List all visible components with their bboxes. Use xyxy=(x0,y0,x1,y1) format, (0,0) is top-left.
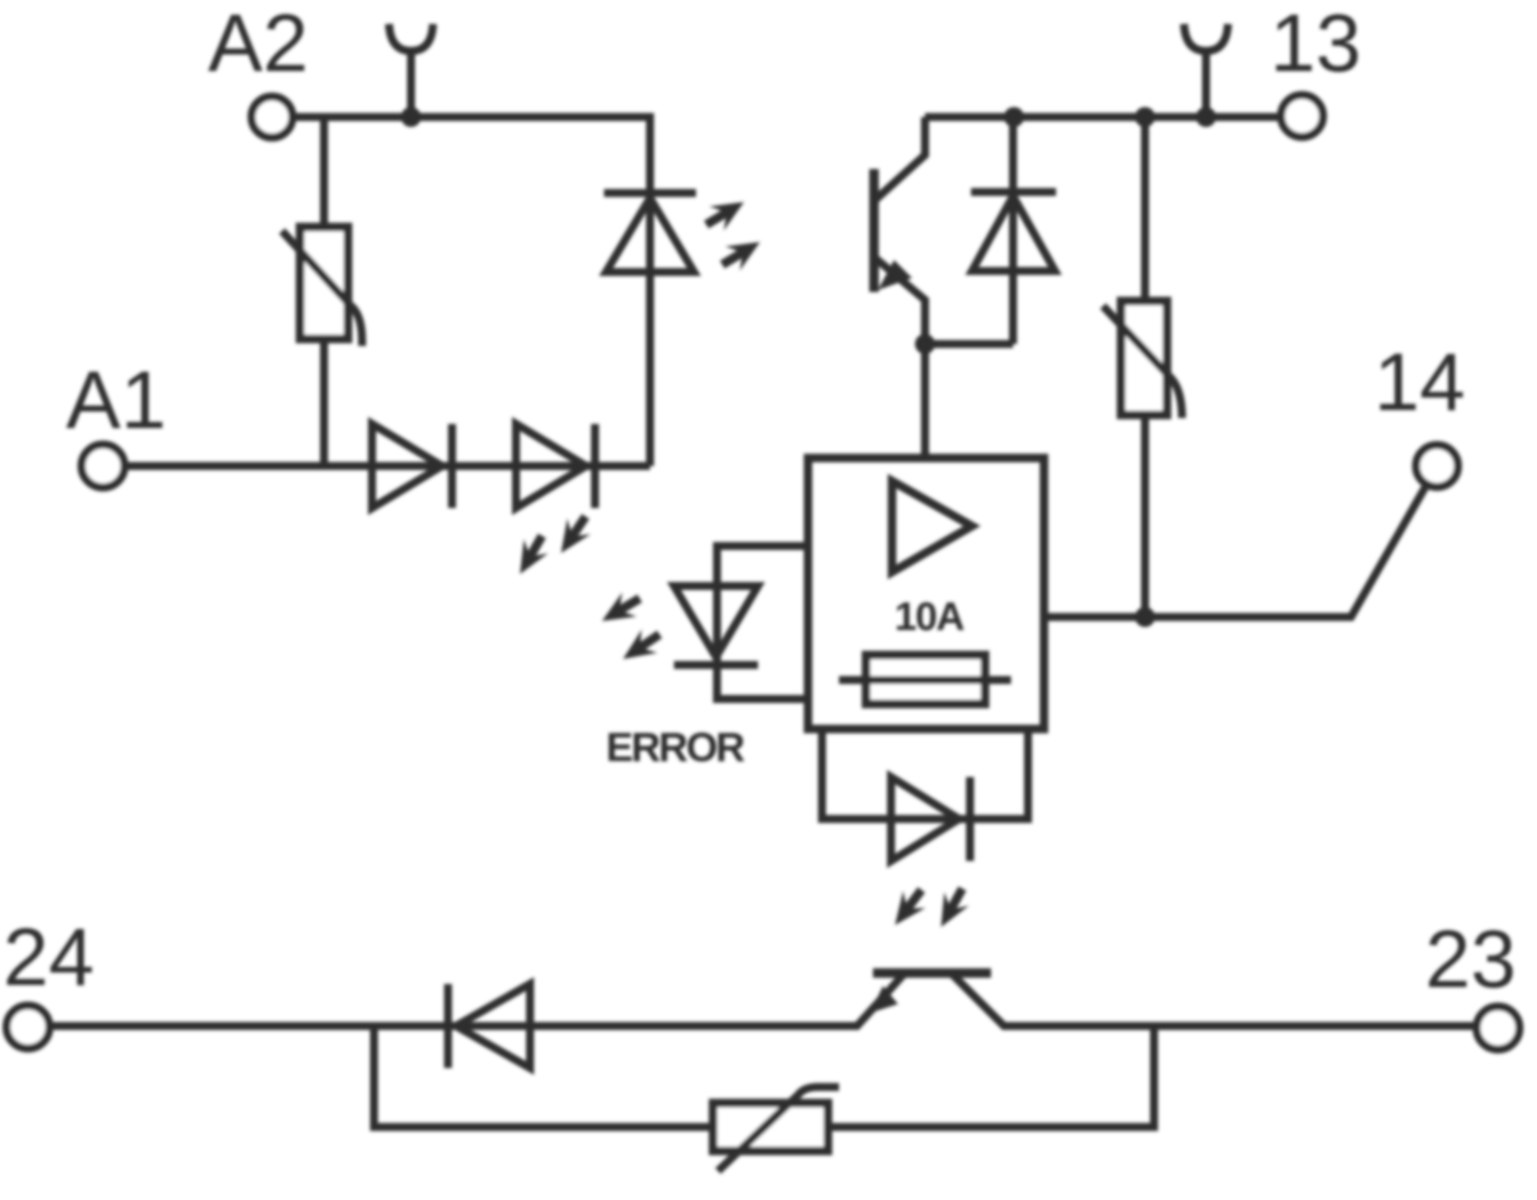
svg-text:24: 24 xyxy=(3,912,94,1003)
svg-text:A1: A1 xyxy=(66,355,166,446)
svg-text:13: 13 xyxy=(1270,0,1361,89)
svg-text:14: 14 xyxy=(1374,337,1465,428)
svg-text:A2: A2 xyxy=(208,0,308,89)
svg-text:23: 23 xyxy=(1425,914,1516,1005)
svg-text:10A: 10A xyxy=(895,595,964,639)
svg-text:ERROR: ERROR xyxy=(606,724,745,770)
